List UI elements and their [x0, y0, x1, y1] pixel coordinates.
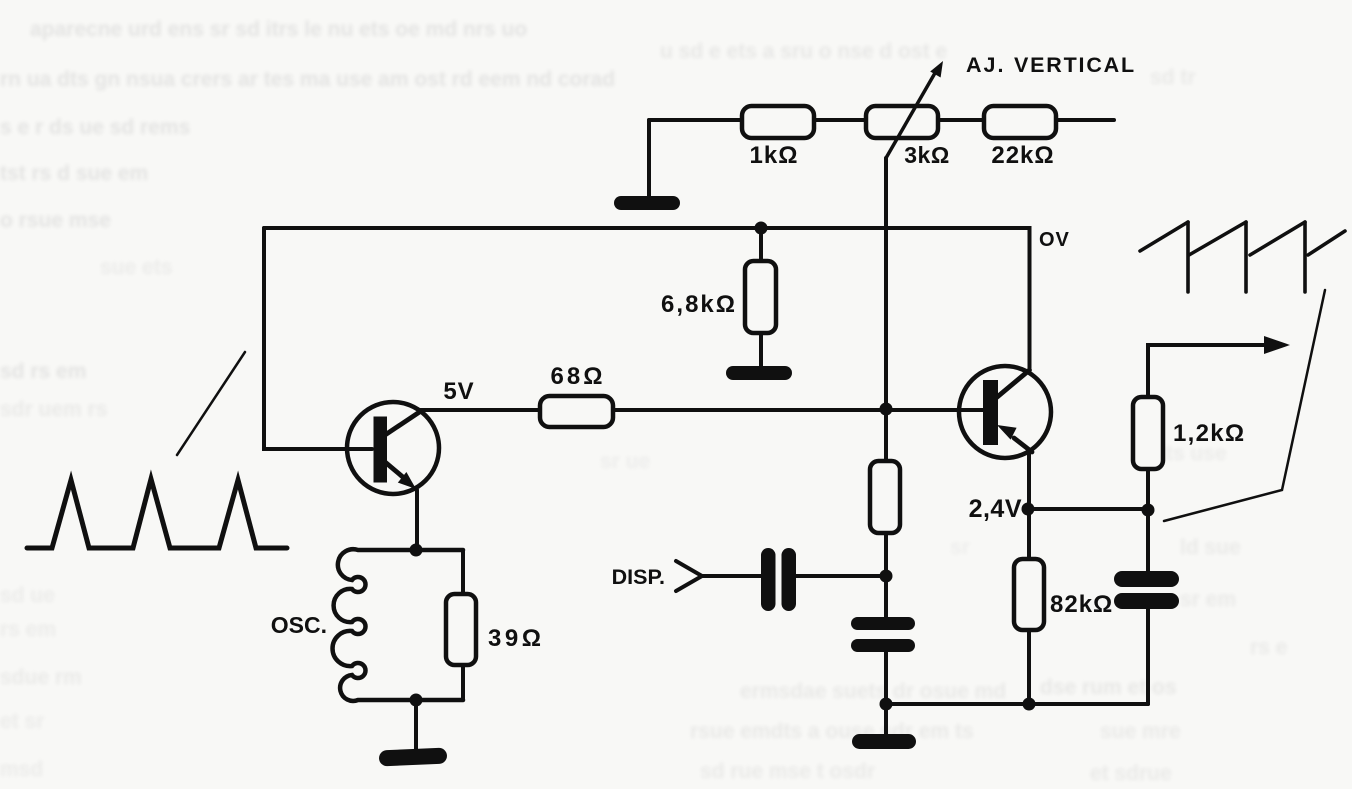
wire: top rail: [649, 118, 1114, 122]
node: 82k bottom: [1023, 698, 1036, 711]
leader line from input waveform: [177, 352, 245, 455]
svg-text:VERTICAL: VERTICAL: [1014, 53, 1136, 77]
svg-text:s e r ds ue sd rems: s e r ds ue sd rems: [0, 116, 190, 139]
resistor 6,8kΩ: [661, 228, 776, 368]
waveform: sawtooth output: [1140, 222, 1345, 292]
svg-text:OSC.: OSC.: [271, 612, 327, 638]
svg-text:et sdrue: et sdrue: [1090, 762, 1172, 785]
svg-text:82kΩ: 82kΩ: [1050, 591, 1113, 618]
svg-text:OV: OV: [1039, 229, 1070, 251]
svg-text:1kΩ: 1kΩ: [750, 142, 799, 169]
ground G2: [726, 366, 792, 380]
svg-text:sdr uem rs: sdr uem rs: [0, 398, 107, 421]
wire: Q1 collector to 68Ω: [420, 408, 540, 412]
svg-text:68Ω: 68Ω: [551, 363, 606, 390]
wire: C1 to middle node: [796, 574, 886, 578]
resistor middle (unlabelled): [870, 409, 900, 576]
ground G3: [379, 748, 448, 767]
svg-text:sd ue: sd ue: [0, 584, 55, 607]
svg-text:tst rs d sue em: tst rs d sue em: [0, 162, 148, 185]
node: wiper / base wire junction: [880, 403, 893, 416]
svg-text:rs e: rs e: [1250, 636, 1287, 659]
wire: 0V rail and right corner down to Q2 collector: [264, 228, 1030, 368]
connector chevron: [676, 561, 702, 591]
node: bottom rail left: [880, 698, 893, 711]
wire: tank bottom to ground: [414, 700, 418, 750]
svg-text:rsue emdts a ouse sdr em: rsue emdts a ouse sdr em ts: [690, 720, 974, 743]
wire: 2,4V node to right branch: [1028, 507, 1148, 511]
svg-text:22kΩ: 22kΩ: [991, 142, 1054, 169]
capacitor C3: [1114, 510, 1179, 704]
wire: wiper down to base node: [884, 158, 888, 409]
wire: DISP to C1: [702, 574, 761, 578]
svg-text:1,2kΩ: 1,2kΩ: [1173, 420, 1245, 447]
svg-text:sr em: sr em: [1180, 588, 1236, 611]
svg-text:6,8kΩ: 6,8kΩ: [661, 291, 737, 318]
resistor 68Ω: [540, 363, 613, 427]
wire: bottom rail: [886, 702, 1148, 706]
svg-text:sdue rm: sdue rm: [0, 666, 82, 689]
svg-text:aparecne urd ens sr sd: aparecne urd ens sr sd itrs le nu ets oe…: [30, 18, 527, 41]
wire: Q2 emitter down: [1027, 452, 1031, 509]
node: 2,4V junction: [1022, 503, 1035, 516]
svg-text:sd rue mse t osdr: sd rue mse t osdr: [700, 760, 875, 783]
svg-text:sue ets: sue ets: [100, 256, 172, 279]
svg-text:sd tr: sd tr: [1150, 66, 1196, 89]
node: rail / 6.8k junction: [755, 222, 768, 235]
svg-text:u sd e ets a sru o nse: u sd e ets a sru o nse d ost e: [660, 40, 947, 63]
wire: ground stub from top rail: [647, 120, 651, 198]
svg-text:msd: msd: [0, 758, 43, 781]
capacitor C1 (coupling): [761, 548, 796, 611]
wire: 68Ω to Q2 base: [613, 408, 983, 412]
transistor Q1: [347, 402, 439, 494]
svg-text:ermsdae suets dr osue md: ermsdae suets dr osue md: [740, 680, 1006, 703]
svg-text:rs em: rs em: [0, 618, 56, 641]
svg-text:ld sue: ld sue: [1180, 536, 1241, 559]
wire: feedback loop left side to Q1 base: [264, 228, 372, 449]
node: tank bottom: [410, 694, 423, 707]
ground G1: [614, 196, 680, 210]
wire: ground stub bottom: [884, 704, 888, 737]
waveform: triangle input: [27, 479, 287, 548]
resistor 39Ω: [446, 550, 544, 700]
transistor Q2: [959, 366, 1051, 458]
svg-text:dse rum et os: dse rum et os: [1040, 676, 1177, 699]
resistor 82kΩ: [1014, 509, 1113, 704]
node: 1,2k / C3 junction: [1142, 504, 1155, 517]
svg-text:o rsue mse: o rsue mse: [0, 209, 111, 232]
resistor 22kΩ: [984, 106, 1056, 169]
node: C1 junction: [880, 570, 893, 583]
leader line to output waveform: [1164, 290, 1325, 521]
potentiometer 3kΩ: [866, 61, 950, 168]
svg-text:3kΩ: 3kΩ: [904, 142, 950, 168]
capacitor C2: [851, 576, 915, 704]
node: tank top: [410, 544, 423, 557]
svg-text:sue mre: sue mre: [1100, 720, 1181, 743]
svg-text:2,4V: 2,4V: [969, 495, 1022, 523]
svg-text:AJ.: AJ.: [966, 53, 1005, 77]
svg-text:DISP.: DISP.: [612, 565, 665, 589]
svg-text:5V: 5V: [443, 378, 474, 405]
svg-text:et sr: et sr: [0, 710, 44, 733]
svg-text:39Ω: 39Ω: [488, 625, 544, 652]
svg-text:rn ua dts gn nsua crers: rn ua dts gn nsua crers ar tes ma use am…: [0, 68, 615, 91]
arrow: output: [1148, 336, 1290, 397]
svg-text:sr: sr: [950, 536, 970, 559]
svg-text:sd rs em: sd rs em: [0, 360, 86, 383]
wire: Q1 emitter down to tank: [415, 490, 419, 550]
resistor 1,2kΩ: [1133, 345, 1245, 509]
resistor 1kΩ: [742, 106, 814, 169]
inductor OSC.: [271, 549, 463, 701]
svg-text:sr ue: sr ue: [600, 450, 650, 473]
ground G4: [852, 734, 916, 749]
